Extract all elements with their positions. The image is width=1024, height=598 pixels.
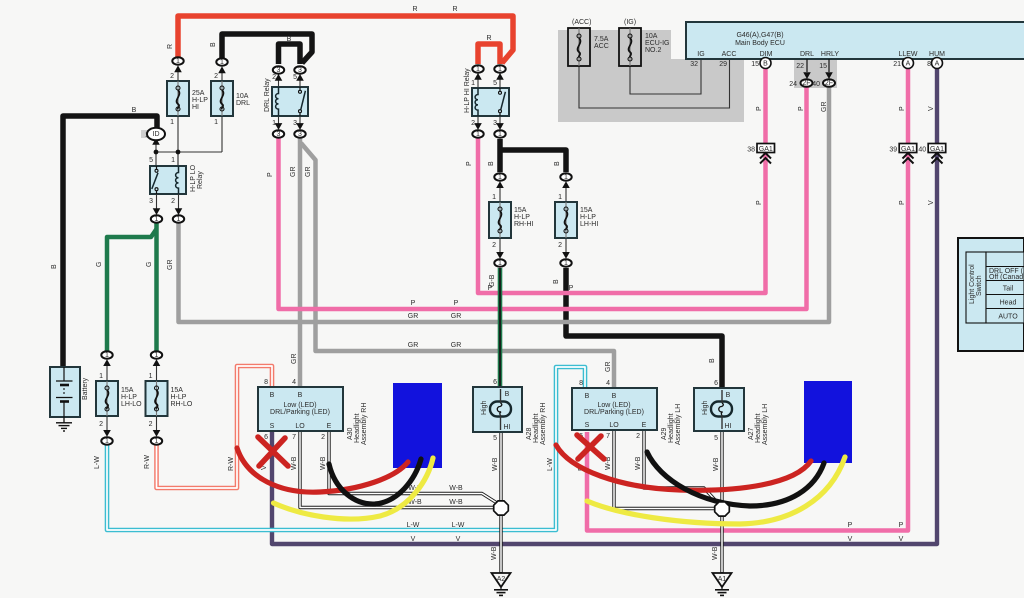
svg-text:1: 1 xyxy=(155,352,159,359)
wire W-B High RH HI to junction xyxy=(499,432,502,502)
svg-text:1: 1 xyxy=(476,131,480,138)
svg-text:1: 1 xyxy=(155,216,159,223)
svg-text:Off (Canada): Off (Canada) xyxy=(989,274,1024,281)
svg-text:21: 21 xyxy=(893,61,901,68)
connector circle DRL fuse top xyxy=(216,58,227,66)
arrow up RH-LO top xyxy=(153,359,161,366)
svg-text:2F: 2F xyxy=(802,80,810,87)
svg-text:R: R xyxy=(452,6,457,13)
svg-text:1: 1 xyxy=(498,66,502,73)
svg-text:B: B xyxy=(210,42,217,47)
connector oval 2F HRLY pin 40 xyxy=(812,79,835,88)
wire GR DRL relay pin 3 to RH assembly B xyxy=(298,138,303,388)
wire W-B LH E to junction xyxy=(644,430,716,501)
connector oval ID xyxy=(147,128,165,141)
junction J2 octagon xyxy=(715,502,730,516)
svg-text:Tail: Tail xyxy=(1003,286,1014,293)
relay DRL xyxy=(264,68,308,128)
svg-text:Assembly LH: Assembly LH xyxy=(675,404,682,445)
wire W-B RH LO to junction xyxy=(300,431,494,508)
connector GA1 40 xyxy=(918,144,945,164)
svg-text:29: 29 xyxy=(719,61,727,68)
svg-text:Switch: Switch xyxy=(976,275,983,296)
svg-text:E: E xyxy=(327,423,332,430)
svg-text:R: R xyxy=(412,6,417,13)
svg-text:6: 6 xyxy=(714,380,718,387)
svg-text:B: B xyxy=(612,393,617,400)
svg-text:GR: GR xyxy=(451,313,462,320)
arrow down DRL pin3 xyxy=(296,123,304,130)
annotation X mark RH xyxy=(258,437,288,466)
svg-text:1: 1 xyxy=(498,260,502,267)
svg-text:2: 2 xyxy=(636,433,640,440)
svg-text:W-B: W-B xyxy=(492,457,499,471)
svg-text:1: 1 xyxy=(564,174,568,181)
svg-text:GR: GR xyxy=(451,342,462,349)
svg-text:B: B xyxy=(709,358,716,363)
svg-text:R-W: R-W xyxy=(228,457,235,471)
svg-text:Headlight: Headlight xyxy=(354,413,361,443)
svg-text:GR: GR xyxy=(408,313,419,320)
fuse 15A H-LP LH-LO xyxy=(96,361,142,435)
svg-text:RH-HI: RH-HI xyxy=(514,221,533,228)
svg-text:40: 40 xyxy=(812,81,820,88)
svg-text:ECU-IG: ECU-IG xyxy=(645,40,670,47)
wire L-W LH-LO fuse to LH assembly B outline xyxy=(107,367,585,530)
svg-text:5: 5 xyxy=(149,157,153,164)
Main Body ECU G46(A),G47(B) xyxy=(686,22,1024,59)
svg-text:V: V xyxy=(928,106,935,111)
svg-text:High: High xyxy=(481,400,488,415)
svg-text:8: 8 xyxy=(264,379,268,386)
ECU HRLY pin wire to 2F xyxy=(828,59,830,72)
connector 2F gray patch xyxy=(794,59,837,88)
svg-text:39: 39 xyxy=(889,147,897,154)
svg-text:H-LP LO: H-LP LO xyxy=(190,164,197,192)
svg-text:H-LP: H-LP xyxy=(580,214,596,221)
connector GA1 38 xyxy=(747,144,774,164)
wire G-B RH-HI fuse to High RH outline xyxy=(498,268,503,390)
connector circles below LO fuses xyxy=(101,437,112,445)
svg-text:R-W: R-W xyxy=(144,455,151,469)
connector GA1 39 xyxy=(889,144,916,164)
svg-text:V: V xyxy=(848,536,853,543)
svg-text:P: P xyxy=(488,285,493,292)
battery ground xyxy=(56,417,72,431)
annotation X mark LH xyxy=(577,435,604,459)
wire P ECU LLEW to LH assembly S xyxy=(587,66,908,531)
svg-text:Assembly RH: Assembly RH xyxy=(540,403,547,445)
svg-text:G: G xyxy=(96,262,103,267)
connector circles H-LP HI relay top xyxy=(472,65,483,73)
svg-text:10A: 10A xyxy=(236,93,249,100)
arrow up RH-HI top xyxy=(496,181,504,188)
connector circles DRL relay top xyxy=(273,66,284,74)
fuse 10A ECU-IG NO.2 xyxy=(619,19,670,66)
svg-text:L-W: L-W xyxy=(547,458,554,471)
svg-text:L-W: L-W xyxy=(407,522,420,529)
svg-text:GR: GR xyxy=(291,354,298,365)
svg-text:W-B: W-B xyxy=(449,485,463,492)
svg-text:(IG): (IG) xyxy=(624,19,636,26)
wire G green branch to LH-LO fuse xyxy=(107,229,157,351)
svg-text:5: 5 xyxy=(493,80,497,87)
svg-text:15: 15 xyxy=(751,61,759,68)
annotation black curve RH xyxy=(329,459,421,504)
svg-text:15A: 15A xyxy=(171,387,184,394)
svg-text:38: 38 xyxy=(747,147,755,154)
svg-text:P: P xyxy=(899,522,904,529)
svg-text:1: 1 xyxy=(155,438,159,445)
light control switch xyxy=(958,238,1024,351)
svg-text:25A: 25A xyxy=(192,90,205,97)
fuse 15A H-LP RH-LO xyxy=(146,361,193,435)
svg-text:W-B: W-B xyxy=(635,456,642,470)
wire B H-LP HI relay pin 3 to HI fuses xyxy=(500,139,566,172)
svg-text:A28: A28 xyxy=(526,427,533,440)
blue rectangle LH xyxy=(804,381,852,463)
svg-text:P: P xyxy=(756,200,763,205)
svg-text:H-LP: H-LP xyxy=(171,394,187,401)
wire V ECU HUM to RH assembly S xyxy=(272,66,937,544)
svg-text:B: B xyxy=(726,392,731,399)
svg-text:Assembly LH: Assembly LH xyxy=(762,404,769,445)
svg-text:W-B: W-B xyxy=(491,546,498,560)
svg-text:3: 3 xyxy=(277,67,281,74)
fuse 25A H-LP HI xyxy=(167,68,208,166)
svg-text:LH-LO: LH-LO xyxy=(121,401,142,408)
wire R-W white core xyxy=(157,366,273,488)
svg-text:B: B xyxy=(554,161,561,166)
svg-text:15: 15 xyxy=(819,63,827,70)
svg-text:B: B xyxy=(132,107,137,114)
svg-text:1: 1 xyxy=(498,131,502,138)
wire G-B black core xyxy=(499,268,501,390)
svg-text:AUTO: AUTO xyxy=(998,314,1018,321)
svg-text:GR: GR xyxy=(605,362,612,373)
svg-text:S: S xyxy=(585,422,590,429)
svg-text:DRL/Parking (LED): DRL/Parking (LED) xyxy=(584,409,644,416)
arrow down LH-HI bottom xyxy=(562,252,570,259)
svg-text:P: P xyxy=(466,161,473,166)
svg-text:1: 1 xyxy=(105,438,109,445)
svg-text:3: 3 xyxy=(149,198,153,205)
svg-text:B: B xyxy=(553,279,560,284)
svg-text:DRL: DRL xyxy=(236,100,250,107)
arrow up into ID oval xyxy=(152,138,160,145)
svg-text:32: 32 xyxy=(690,61,698,68)
svg-text:RH-LO: RH-LO xyxy=(171,401,193,408)
svg-text:Relay: Relay xyxy=(197,171,204,189)
arrow up LH-LO top xyxy=(103,359,111,366)
svg-text:B: B xyxy=(51,264,58,269)
arrow up into 25A fuse circle xyxy=(174,65,182,72)
svg-text:A2: A2 xyxy=(497,576,506,583)
battery xyxy=(50,367,89,417)
svg-text:22: 22 xyxy=(796,63,804,70)
ground A1 xyxy=(713,573,732,595)
svg-text:LH-HI: LH-HI xyxy=(580,221,598,228)
arrow up H-LP HI pin5 xyxy=(496,73,504,80)
A30 headlight assembly RH Low box xyxy=(258,379,368,445)
connector circle B at ECU DIM xyxy=(760,58,771,69)
svg-text:LO: LO xyxy=(295,423,305,430)
svg-text:H-LP: H-LP xyxy=(192,97,208,104)
fuse 10A DRL xyxy=(211,69,250,152)
svg-text:Head: Head xyxy=(1000,300,1017,307)
svg-text:P: P xyxy=(899,200,906,205)
svg-text:2: 2 xyxy=(171,198,175,205)
arrow up LH-HI top xyxy=(562,181,570,188)
svg-text:ID: ID xyxy=(153,131,160,138)
connector oval 2F DRL pin 24 xyxy=(789,79,812,88)
wire W-B junction J2 to ground A1 xyxy=(720,516,723,573)
svg-text:Headlight: Headlight xyxy=(668,413,675,443)
connector circles above HI fuses xyxy=(494,173,505,181)
A28 High RH box xyxy=(473,379,547,445)
arrow down pin2 xyxy=(175,208,183,215)
svg-text:W-B: W-B xyxy=(449,499,463,506)
svg-text:P: P xyxy=(798,106,805,111)
svg-text:R: R xyxy=(167,44,174,49)
svg-text:H-LP: H-LP xyxy=(514,214,530,221)
svg-text:P: P xyxy=(569,285,574,292)
arrow into 2F (DRL) xyxy=(803,72,811,79)
svg-text:3: 3 xyxy=(298,131,302,138)
svg-text:24: 24 xyxy=(789,81,797,88)
annotation yellow curve RH xyxy=(274,458,434,519)
wire R main feed xyxy=(178,16,513,64)
annotation red curve LH xyxy=(556,445,811,490)
svg-text:IG: IG xyxy=(697,51,704,58)
wire R bridge H-LP HI relay pins 1-5 xyxy=(478,44,500,64)
svg-text:1: 1 xyxy=(492,194,496,201)
svg-text:P: P xyxy=(899,106,906,111)
svg-text:Low (LED): Low (LED) xyxy=(597,402,630,409)
svg-text:GR: GR xyxy=(290,167,297,178)
ECU DRL pin wire to 2F xyxy=(806,59,808,72)
svg-text:8: 8 xyxy=(927,61,931,68)
svg-text:15A: 15A xyxy=(580,207,593,214)
svg-text:HRLY: HRLY xyxy=(821,51,839,58)
svg-text:6: 6 xyxy=(493,379,497,386)
svg-text:G: G xyxy=(146,262,153,267)
connector circles below HI fuses xyxy=(494,259,505,267)
svg-text:2: 2 xyxy=(149,421,153,428)
svg-text:4: 4 xyxy=(292,379,296,386)
wire GR branch to LH assembly B xyxy=(301,143,614,389)
connector circles above LO fuses xyxy=(101,351,112,359)
wire relay H-LP LO pins to circles xyxy=(157,194,179,213)
svg-text:Headlight: Headlight xyxy=(755,413,762,443)
svg-text:V: V xyxy=(456,536,461,543)
arrow down DRL pin1 xyxy=(275,123,283,130)
svg-text:DRL/Parking (LED): DRL/Parking (LED) xyxy=(270,409,330,416)
svg-text:GR: GR xyxy=(167,260,174,271)
svg-text:5: 5 xyxy=(493,435,497,442)
svg-text:1: 1 xyxy=(476,66,480,73)
svg-text:P: P xyxy=(454,300,459,307)
svg-text:15A: 15A xyxy=(514,207,527,214)
svg-text:W-B: W-B xyxy=(713,457,720,471)
svg-text:High: High xyxy=(702,400,709,415)
connector circles H-LP LO relay bottom xyxy=(151,215,162,223)
svg-text:2: 2 xyxy=(170,73,174,80)
wire fuse IG to ECU IG pin xyxy=(630,59,701,94)
svg-text:1: 1 xyxy=(170,119,174,126)
svg-text:Battery: Battery xyxy=(82,377,89,400)
svg-text:P: P xyxy=(411,300,416,307)
svg-text:15A: 15A xyxy=(121,387,134,394)
svg-text:1: 1 xyxy=(149,373,153,380)
svg-text:LO: LO xyxy=(609,422,619,429)
svg-text:1: 1 xyxy=(214,119,218,126)
svg-text:2: 2 xyxy=(492,242,496,249)
fuse 15A H-LP LH-HI xyxy=(555,183,598,257)
wire B DRL fuse feed xyxy=(222,34,312,63)
svg-text:G46(A),G47(B): G46(A),G47(B) xyxy=(736,32,783,39)
svg-text:3: 3 xyxy=(277,131,281,138)
svg-text:L-W: L-W xyxy=(94,456,101,469)
svg-text:4: 4 xyxy=(606,380,610,387)
connector circle A at ECU HUM xyxy=(932,58,943,69)
annotation black curve LH xyxy=(647,452,824,506)
arrow up DRL pin5 xyxy=(296,74,304,81)
svg-text:B: B xyxy=(287,36,292,43)
arrow down RH-HI bottom xyxy=(496,252,504,259)
wire B battery to ID connector xyxy=(63,116,157,368)
junction dot node 1 xyxy=(154,150,159,155)
A27 High LH box xyxy=(694,380,769,445)
svg-text:5: 5 xyxy=(714,435,718,442)
wire fuse ACC to ECU ACC pin xyxy=(579,59,730,108)
junction J1 octagon xyxy=(494,501,509,515)
wire P DRL relay pin 1 to ECU DRL xyxy=(279,86,807,309)
fuse 7.5A ACC xyxy=(568,19,609,66)
svg-text:1: 1 xyxy=(171,157,175,164)
svg-text:A30: A30 xyxy=(347,427,354,440)
svg-text:L-W: L-W xyxy=(452,522,465,529)
arrow up into DRL fuse circle xyxy=(218,66,226,73)
svg-text:GR: GR xyxy=(305,167,312,178)
svg-text:ACC: ACC xyxy=(594,43,609,50)
svg-text:W-B: W-B xyxy=(291,456,298,470)
ground A2 xyxy=(492,573,511,595)
svg-text:V: V xyxy=(899,536,904,543)
svg-text:H-LP: H-LP xyxy=(121,394,137,401)
svg-text:V: V xyxy=(411,536,416,543)
svg-text:A29: A29 xyxy=(661,427,668,440)
wire W-B High LH HI to junction xyxy=(720,431,723,503)
svg-text:HI: HI xyxy=(192,104,199,111)
svg-text:3: 3 xyxy=(298,67,302,74)
svg-text:GR: GR xyxy=(408,342,419,349)
wire R-W RH-LO fuse to RH assembly B outline xyxy=(157,366,273,488)
svg-text:A1: A1 xyxy=(718,576,727,583)
connector ID tag xyxy=(141,130,154,138)
svg-text:2F: 2F xyxy=(825,80,833,87)
connector circle 25A fuse top xyxy=(172,57,183,65)
svg-text:40: 40 xyxy=(918,147,926,154)
svg-text:1: 1 xyxy=(471,80,475,87)
svg-text:2: 2 xyxy=(99,421,103,428)
connector circles H-LP HI relay bottom xyxy=(472,130,483,138)
svg-text:(ACC): (ACC) xyxy=(572,19,591,26)
connector circle A at ECU LLEW xyxy=(903,58,914,69)
svg-text:W-B: W-B xyxy=(320,456,327,470)
connector circles DRL relay bottom xyxy=(273,130,284,138)
relay H-LP LO xyxy=(149,157,204,205)
blue rectangle RH xyxy=(393,383,442,468)
A29 headlight assembly LH Low box xyxy=(572,380,682,445)
svg-text:1: 1 xyxy=(177,216,181,223)
svg-text:Assembly RH: Assembly RH xyxy=(361,403,368,445)
svg-text:10A: 10A xyxy=(645,33,658,40)
svg-text:1: 1 xyxy=(564,260,568,267)
svg-text:HI: HI xyxy=(504,424,511,431)
svg-text:HI: HI xyxy=(725,423,732,430)
svg-text:2: 2 xyxy=(558,242,562,249)
fuse 15A H-LP RH-HI xyxy=(489,183,533,257)
arrow down LH-LO bottom xyxy=(103,430,111,437)
junction wire fuses to H-LP LO relay xyxy=(156,141,222,166)
svg-text:P: P xyxy=(267,172,274,177)
arrow down RH-LO bottom xyxy=(153,430,161,437)
svg-text:B: B xyxy=(298,392,303,399)
wire B bridge DRL relay pins 2-5 xyxy=(279,44,301,64)
svg-text:P: P xyxy=(756,106,763,111)
svg-text:DRL: DRL xyxy=(800,51,814,58)
svg-text:Main Body ECU: Main Body ECU xyxy=(735,40,785,47)
svg-text:P: P xyxy=(848,522,853,529)
svg-text:7: 7 xyxy=(606,433,610,440)
junction dot node 2 xyxy=(176,150,181,155)
svg-text:ACC: ACC xyxy=(722,51,737,58)
svg-text:1: 1 xyxy=(176,58,180,65)
svg-text:B: B xyxy=(505,391,510,398)
arrow down pin3 xyxy=(153,208,161,215)
svg-text:1: 1 xyxy=(105,352,109,359)
wire P H-LP HI relay pin 2 to ECU DIM xyxy=(478,66,766,293)
svg-text:NO.2: NO.2 xyxy=(645,47,661,54)
arrow into 2F (HRLY) xyxy=(825,72,833,79)
svg-text:W-B: W-B xyxy=(712,546,719,560)
svg-text:7: 7 xyxy=(292,434,296,441)
svg-text:R: R xyxy=(486,35,491,42)
annotation red curve RH xyxy=(237,448,408,492)
svg-text:S: S xyxy=(270,423,275,430)
svg-text:A: A xyxy=(935,61,940,68)
arrow down H-LP HI pin3 xyxy=(496,123,504,130)
svg-text:H-LP HI Relay: H-LP HI Relay xyxy=(464,68,471,113)
svg-text:2: 2 xyxy=(214,73,218,80)
svg-text:2: 2 xyxy=(321,434,325,441)
arrow up H-LP HI pin1 xyxy=(474,73,482,80)
svg-text:DRL Relay: DRL Relay xyxy=(264,78,271,112)
svg-text:GR: GR xyxy=(821,102,828,113)
svg-text:B: B xyxy=(270,392,275,399)
svg-text:1: 1 xyxy=(99,373,103,380)
junction block gray box xyxy=(558,30,744,122)
wire W-B junction J1 to ground A2 xyxy=(499,515,502,573)
wire G green from H-LP LO relay pin 3 to RH-LO fuse xyxy=(154,222,159,351)
ECU pin numbers xyxy=(690,61,931,70)
wire W-B RH E to junction xyxy=(329,431,497,503)
svg-text:A: A xyxy=(906,61,911,68)
svg-text:1: 1 xyxy=(558,194,562,201)
svg-text:B: B xyxy=(585,393,590,400)
arrow down H-LP HI pin2 xyxy=(474,123,482,130)
